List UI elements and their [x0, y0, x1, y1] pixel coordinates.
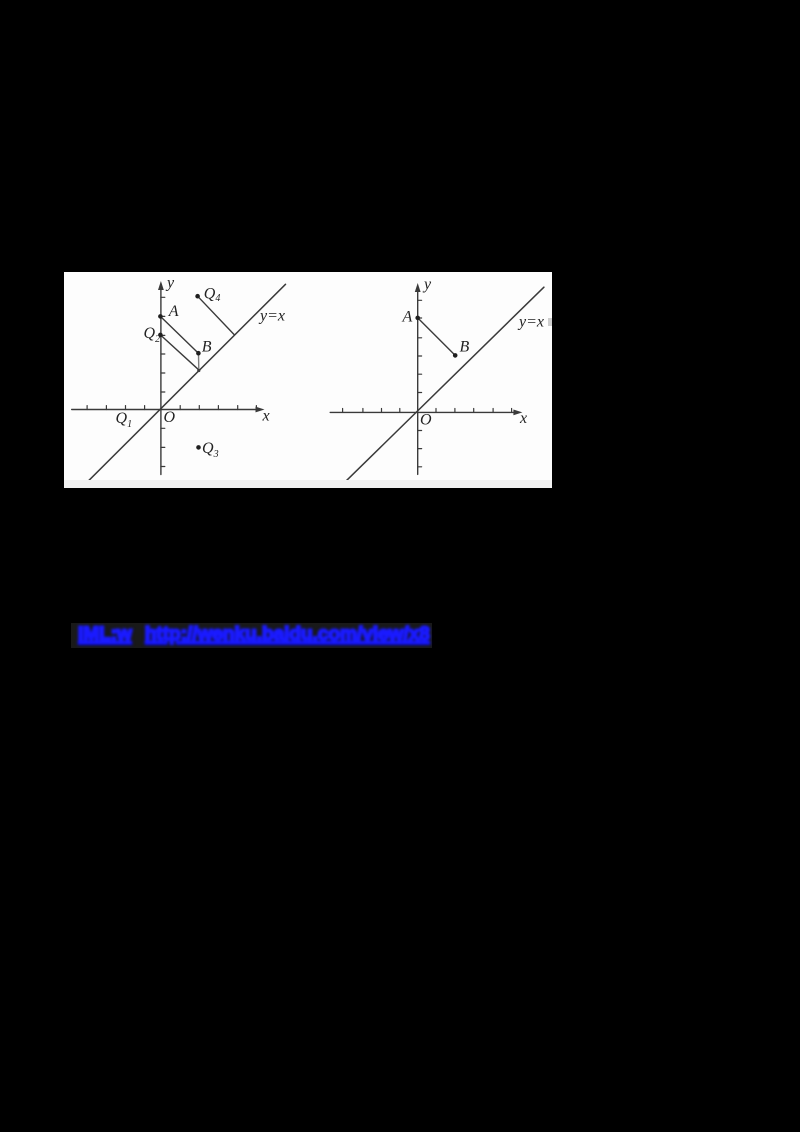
left point A dot	[158, 314, 163, 319]
left x-axis	[72, 407, 265, 413]
svg-text:y: y	[422, 276, 432, 293]
left point B dot	[196, 351, 201, 356]
left diagonal line y=x	[85, 284, 286, 484]
left segment Q2 to foot F	[160, 335, 199, 370]
right point B dot	[453, 353, 458, 358]
right y-axis	[415, 283, 421, 474]
right y-axis ticks	[418, 300, 422, 467]
left segment A to B	[160, 316, 198, 353]
svg-text:B: B	[202, 339, 212, 356]
right diagonal line y=x	[343, 287, 544, 484]
dark halo band behind hyperlink	[71, 623, 432, 648]
scan artifact: light strip at bottom of panel	[64, 480, 552, 488]
right x-axis ticks	[343, 409, 512, 413]
left segment B to foot F	[198, 353, 200, 370]
svg-text:Q3: Q3	[202, 440, 219, 460]
svg-text:A: A	[168, 303, 179, 320]
svg-text:Q4: Q4	[204, 286, 221, 305]
white figure panel	[64, 272, 552, 488]
svg-text:x: x	[519, 410, 527, 427]
left point Q4 dot	[195, 294, 200, 299]
svg-text:Q2: Q2	[144, 325, 161, 345]
svg-text:y: y	[165, 275, 175, 292]
right point A dot	[415, 316, 420, 321]
scan artifact: small gray mark at right edge	[548, 318, 552, 326]
left point Q2 dot	[158, 333, 163, 338]
left y-axis ticks	[161, 297, 165, 466]
svg-text:O: O	[164, 409, 176, 426]
svg-text:Q1: Q1	[116, 410, 133, 430]
left segment Q4 to diagonal	[198, 296, 235, 335]
right x-axis	[330, 410, 522, 416]
svg-text:y=x: y=x	[517, 314, 544, 331]
blue hyperlink text	[78, 624, 478, 650]
left y-axis	[158, 281, 164, 475]
left x-axis ticks	[87, 406, 256, 410]
svg-text:y=x: y=x	[258, 308, 285, 325]
svg-text:O: O	[420, 412, 432, 429]
right segment A to B	[418, 318, 456, 356]
svg-text:x: x	[262, 408, 270, 425]
svg-text:B: B	[460, 339, 470, 356]
svg-text:A: A	[402, 309, 413, 326]
left junction dot at foot F	[197, 369, 200, 372]
left point Q3 dot	[196, 445, 201, 450]
